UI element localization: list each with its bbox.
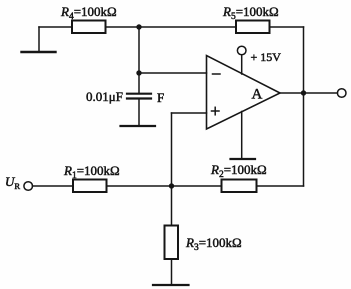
input terminal circle UR xyxy=(24,182,33,191)
label minus sign at inverting input xyxy=(213,73,221,75)
svg-text:R5=100kΩ: R5=100kΩ xyxy=(222,4,279,22)
resistor R3 xyxy=(165,226,179,260)
resistor R4 xyxy=(72,21,106,34)
wire node B to op-amp inverting input xyxy=(139,72,207,74)
wire R4 right to node A xyxy=(106,26,140,28)
wire input terminal to R1 left xyxy=(33,185,74,187)
label plus sign at non-inverting input xyxy=(212,107,220,115)
wire +15V terminal to op-amp top xyxy=(241,55,243,74)
wire capacitor bottom plate to ground G2 xyxy=(138,99,140,127)
power terminal +15V circle xyxy=(237,46,246,55)
svg-text:R2=100kΩ: R2=100kΩ xyxy=(210,162,267,180)
output terminal circle xyxy=(337,89,346,98)
op-amp U1 triangle xyxy=(207,56,281,130)
wire R3 bottom to ground G4 xyxy=(171,259,173,285)
wire non-inverting input run (up from node D then right into op-amp) xyxy=(172,113,207,186)
svg-text:A: A xyxy=(252,87,263,103)
svg-text:R1=100kΩ: R1=100kΩ xyxy=(63,163,120,181)
wire top-right corner down to output node xyxy=(303,27,305,93)
wire R5 right to top-right corner xyxy=(270,26,304,28)
resistor R1 xyxy=(73,180,107,193)
wire node A to R5 left xyxy=(139,26,236,28)
ground G3 (below op-amp) xyxy=(231,158,256,160)
svg-text:R4=100kΩ: R4=100kΩ xyxy=(60,4,117,22)
svg-text:+ 15V: + 15V xyxy=(251,50,282,64)
svg-text:0.01μF: 0.01μF xyxy=(86,89,123,104)
resistor R5 xyxy=(236,21,270,34)
wire R1 right to node D xyxy=(107,185,172,187)
wire op-amp bottom pin down to ground G3 xyxy=(241,112,243,160)
junction node D (non-inverting net) xyxy=(169,183,174,188)
capacitor C1 0.01uF xyxy=(127,94,151,99)
ground G2 (below capacitor) xyxy=(121,125,156,127)
wire node B down to capacitor top plate xyxy=(138,73,140,93)
ground G4 (below R3) xyxy=(153,284,189,286)
junction node C (output node) xyxy=(301,90,306,95)
junction node B (inverting input node) xyxy=(136,70,141,75)
wire op-amp output to output terminal xyxy=(280,92,337,94)
wire output node down to R2 right corner xyxy=(303,93,305,186)
wire node D to R2 left xyxy=(172,185,222,187)
ground G1 (left of R4) xyxy=(22,27,56,52)
wire node A down to node B xyxy=(138,27,140,73)
svg-text:UR: UR xyxy=(5,174,20,191)
junction node A (top feedback node) xyxy=(136,24,141,29)
svg-text:F: F xyxy=(157,90,164,105)
svg-text:R3=100kΩ: R3=100kΩ xyxy=(185,235,242,253)
wire node D down to R3 top xyxy=(171,186,173,226)
resistor R2 xyxy=(222,180,257,193)
wire ground G1 to R4 left xyxy=(39,26,72,28)
wire R2 right to bottom-right corner xyxy=(257,185,304,187)
